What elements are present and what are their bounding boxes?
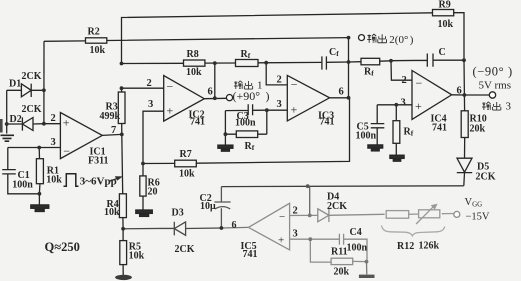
svg-text:3: 3 [293,229,298,240]
pin 3 IC1 [8,137,61,148]
svg-text:C4: C4 [350,227,362,238]
svg-text:(−90°: (−90° [473,65,505,79]
wire R2 node down to diode clipper and IC1 pin2 [43,41,45,123]
svg-text:C: C [439,47,446,58]
terminal 输出2 [359,35,365,41]
svg-text:741: 741 [432,123,447,134]
svg-text:−: − [416,76,423,90]
svg-text:R12: R12 [397,241,414,252]
pin 2 IC1 [44,113,61,124]
label 输出 2(0°) [367,34,414,46]
svg-text:2CK: 2CK [476,171,496,182]
svg-text:−15V: −15V [466,212,490,223]
capacitor C2 [200,187,231,228]
svg-text:+: + [63,116,70,130]
wire R7 return from IC3 output [143,98,350,164]
label 输出 1 (+90°) [233,80,270,104]
resistor R11 [310,239,366,277]
terminal 输出3 [489,92,495,98]
svg-text:2CK: 2CK [22,71,42,82]
svg-text:20: 20 [148,186,158,197]
wire IC1 output vertical down to R4 [121,134,124,193]
resistor R1 [36,148,62,194]
svg-text:Q≈250: Q≈250 [45,240,80,254]
brace R12 [382,226,445,236]
label VGG -15V [465,197,490,223]
svg-text:+: + [415,99,422,113]
svg-text:6: 6 [208,87,213,98]
svg-text:10k: 10k [46,174,62,185]
svg-text:R8: R8 [187,49,199,60]
svg-text:+: + [291,103,298,117]
svg-text:2: 2 [147,78,152,89]
terminal VGG [454,211,460,217]
svg-text:Rf: Rf [364,67,374,78]
pin 3 IC4 [377,98,412,109]
wire top feedback from IC2 input node to R9 [122,13,433,64]
svg-text:−: − [291,77,298,91]
svg-text:(+90°: (+90° [233,89,261,103]
resistor Rf IC4 pin 3 [393,105,414,155]
pin 2 IC5 [290,206,310,217]
resistor Rf parallel C3 [236,131,257,152]
svg-text:10k: 10k [179,169,195,180]
svg-text:126k: 126k [419,240,440,251]
capacitor C3 [225,104,266,128]
wire IC5 pin2 up to AGC rail [309,186,311,215]
svg-text:499k: 499k [100,111,121,122]
svg-text:2CK: 2CK [327,201,347,212]
terminal 输出1 [226,95,232,101]
svg-text:D2: D2 [10,114,22,125]
resistor R12 variable [386,204,453,224]
svg-text:10μ: 10μ [200,201,216,212]
svg-text:10k: 10k [186,67,202,78]
ground R6 [136,210,153,216]
svg-text:5V rms: 5V rms [479,80,512,92]
svg-text:): ) [266,89,270,103]
svg-text:6: 6 [232,220,237,231]
svg-text:10k: 10k [438,19,454,30]
wire IC2 summing node across R8 Rf Cf to IC3 output vertical [122,62,349,64]
wire R9 right corner down to IC4 output node [454,13,465,95]
svg-text:R9: R9 [439,0,451,10]
svg-text:2: 2 [402,75,407,86]
svg-text:100n: 100n [12,179,33,190]
ground C3 network [218,134,233,151]
pin 2 IC2 [122,78,164,89]
capacitor C [391,47,464,67]
pin 7 IC1 output [102,125,122,136]
diode D4 [310,191,385,222]
svg-text:+: + [167,104,174,118]
svg-text:10k: 10k [90,45,106,56]
svg-text:Rf: Rf [241,49,251,60]
svg-text:20k: 20k [470,124,486,135]
svg-text:741: 741 [190,116,205,127]
resistor Rf IC3 out to IC4 [349,58,392,77]
svg-text:100n: 100n [356,131,377,142]
svg-text:R7: R7 [180,149,192,160]
resistor R4 [104,194,126,229]
pin 6 IC2 output wire [204,87,226,99]
svg-text:3: 3 [277,99,282,110]
resistor R10 [461,95,487,158]
resistor R7 [175,149,197,180]
node junction dots [5,36,467,264]
resistor R9 [433,0,454,30]
capacitor C1 [2,148,39,194]
wire Rf C node down to IC4 pin 2 [391,61,412,80]
resistor R3 [100,88,126,134]
svg-text:2: 2 [51,113,56,124]
svg-text:): ) [410,34,414,46]
svg-text:6: 6 [339,87,344,98]
op-amp IC4 [412,71,452,134]
svg-text:2CK: 2CK [175,244,195,255]
svg-text:D1: D1 [9,79,21,90]
ground C1 R1 [31,194,49,212]
wire clipper left vertical to ground [6,90,8,133]
wire C3 network verticals [225,110,266,134]
svg-text:2CK: 2CK [22,104,42,115]
label R12 126k [397,240,440,251]
diode D2 [7,104,44,130]
svg-text:741: 741 [320,117,335,128]
capacitor Cf [322,47,339,70]
svg-text:3~6Vpp: 3~6Vpp [80,175,117,187]
ground Rf IC4 [390,155,404,161]
diode D3 [123,208,221,256]
resistor Rf integrator IC3 input [236,49,259,67]
diode D5 [457,158,496,186]
wire AGC bottom rail [221,185,463,188]
label square wave 3~6Vpp [64,174,123,188]
svg-text:D3: D3 [172,208,184,219]
scan edge smudge [0,119,3,133]
diode D1 [7,71,44,97]
svg-text:−: − [167,80,174,94]
op-amp IC2 [164,76,205,128]
pin 6 IC3 output [330,87,349,98]
svg-text:−: − [279,211,285,223]
svg-text:3: 3 [148,99,153,110]
op-amp IC3 [287,75,334,127]
capacitor C4 [310,227,367,261]
svg-text:3: 3 [506,101,512,113]
svg-text:Rf: Rf [404,127,414,138]
op-amp IC5 [241,203,290,259]
wire D3 to IC5 output pin 6 [221,220,248,231]
svg-text:2: 2 [277,75,282,86]
svg-text:20k: 20k [334,266,350,277]
ground R5 [115,275,132,280]
wire C3 network to IC3 pin 3 [267,109,288,111]
svg-text:100n: 100n [235,118,256,129]
svg-text:Rf: Rf [245,141,255,152]
ground C5 [368,145,383,151]
svg-text:3: 3 [401,98,406,109]
ground clipper [1,135,15,141]
wire Cf left node down to IC3 pin 2 [266,63,287,85]
svg-text:): ) [508,65,512,79]
label (-90°) 5V rms 输出 3 [473,65,513,113]
svg-text:F311: F311 [88,155,109,166]
svg-text:−: − [63,144,70,158]
pin 6 IC4 output [452,86,490,97]
svg-text:2(0°: 2(0° [389,34,408,46]
svg-text:R11: R11 [331,247,348,258]
svg-text:Cf: Cf [329,47,339,58]
resistor R6 [140,164,160,210]
wire R8 node down to IC2 output [214,63,216,98]
svg-text:741: 741 [243,249,258,260]
wire IC3 output node vertical [348,38,350,98]
resistor R2 [44,26,349,56]
resistor R5 [120,229,145,275]
pin 3 IC2 [143,99,164,164]
svg-text:100n: 100n [347,242,368,253]
pin 3 IC5 [290,229,311,240]
ground R11 C4 [359,262,375,278]
capacitor C5 [356,105,385,145]
svg-text:R2: R2 [88,26,100,37]
resistor R8 [184,49,205,78]
svg-text:3: 3 [51,137,56,148]
svg-text:10k: 10k [129,251,145,262]
svg-text:+: + [278,235,284,247]
op-amp IC1 [60,113,108,167]
svg-text:10k: 10k [104,207,120,218]
